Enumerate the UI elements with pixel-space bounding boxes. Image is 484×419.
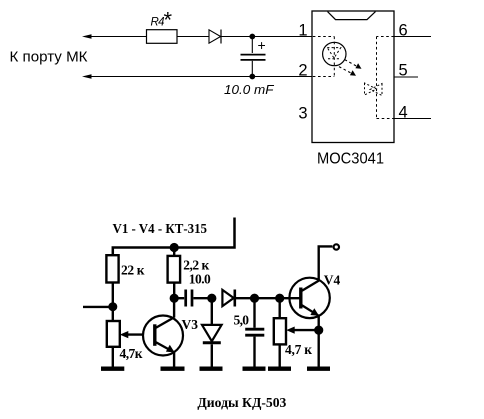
svg-text:4,7 к: 4,7 к [285,342,312,357]
light emission arrows (dashed) [339,60,362,76]
svg-text:V3: V3 [182,317,199,332]
capacitor 10.0 (coupling) [174,290,212,307]
wire: V4 emitter drop [318,316,320,367]
svg-text:10.0 mF: 10.0 mF [224,82,275,97]
photo-triac inside optocoupler (dashed) [365,37,395,119]
svg-text:V4: V4 [324,273,341,288]
wire: to V4 base [255,297,280,299]
LED emitter inside optocoupler (dashed) [313,37,346,77]
wire: wiper to emitter [286,327,319,334]
ground (under left pot) [101,367,124,371]
ground (under shunt diode) [200,367,223,371]
diode VD1 (series, top line) [209,30,221,44]
wire: pin 5 lead [394,76,418,78]
wire: supply rail with riser [113,218,235,256]
svg-text:22 к: 22 к [121,262,145,277]
wire: port line 1 (to MK) with arrow [82,34,313,38]
wire: V4 collector to output [319,246,333,280]
capacitor C1 10.0 mF (polarized) [241,37,266,77]
potentiometer 4,7к (left) [107,321,153,367]
wire: pin 4 lead [394,118,431,120]
node: capacitor top junction [249,34,255,40]
svg-text:10.0: 10.0 [189,272,211,287]
svg-text:5,0: 5,0 [234,313,250,328]
node: rail junction [170,243,179,252]
ground (under V3) [161,367,185,371]
ground (under right pot) [268,367,291,371]
svg-text:V1 - V4 - КТ-315: V1 - V4 - КТ-315 [113,222,208,237]
resistor R4 [147,30,178,44]
node: V4 base junction [275,294,284,303]
svg-text:1: 1 [298,22,307,40]
optocoupler U1 MOC3041 body [312,11,394,143]
ground (under V4) [307,367,330,371]
wire: input from left [83,306,113,308]
resistor 22к [106,255,118,321]
wire: port line 2 (to MK) with arrow [82,74,313,78]
wire: V3 collector riser [173,298,175,317]
svg-text:К порту МК: К порту МК [10,50,89,66]
capacitor 5,0 (filter) [245,298,264,366]
ground (under 5,0 cap) [243,367,266,371]
node: V4 emitter junction [314,326,323,335]
node: V3 collector junction [170,294,179,303]
svg-text:*: * [164,8,173,33]
svg-text:+: + [258,37,266,53]
potentiometer 4,7 к (right) [274,298,286,366]
svg-text:Диоды КД-503: Диоды КД-503 [197,396,286,411]
svg-text:MOC3041: MOC3041 [317,150,384,167]
svg-text:2,2 к: 2,2 к [183,258,209,273]
node: after coupling cap [207,294,216,303]
resistor 2,2к [168,248,181,299]
svg-text:3: 3 [298,105,307,123]
svg-text:4,7к: 4,7к [120,346,143,361]
node: divider junction [108,302,117,311]
node: capacitor bottom junction [249,74,255,80]
svg-text:R4: R4 [151,17,165,29]
diode series КД-503 [222,290,254,307]
svg-text:2: 2 [298,61,307,79]
transistor V4 [280,278,330,318]
transistor V3 [143,316,183,367]
diode to ground КД-503 [202,298,222,366]
node: detector junction [250,294,259,303]
wire: pin 6 lead [394,36,431,38]
output terminal [334,244,339,249]
